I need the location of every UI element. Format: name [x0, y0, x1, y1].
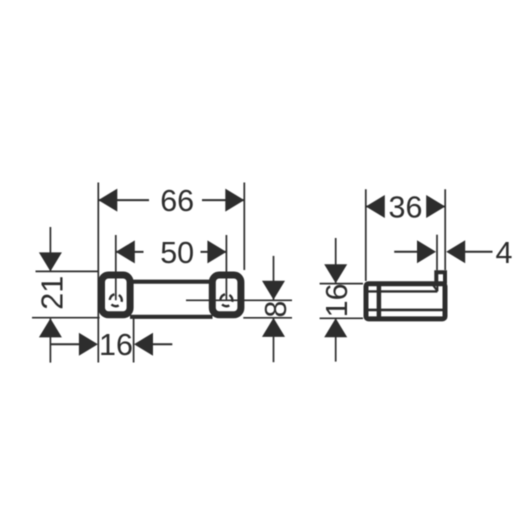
hole axis horizontal centerline [186, 299, 292, 301]
dim 36 extension line right [444, 189, 446, 270]
dim 21 top leader [49, 227, 51, 271]
right screw hole (dashed circle) [218, 292, 234, 308]
dim 8 bottom extension line [243, 317, 292, 319]
dim 66 extension line left [97, 183, 99, 363]
svg-text:66: 66 [160, 184, 194, 218]
dim 16 left extension line [133, 319, 135, 363]
dim 21 top extension line [36, 270, 99, 272]
dim 16 left arrow [79, 333, 98, 356]
dim 8 top leader [273, 256, 275, 300]
dim 16 side top extension line [320, 283, 363, 285]
dim 36 line [366, 206, 445, 208]
dim 50 line [116, 251, 227, 253]
svg-text:50: 50 [160, 236, 194, 270]
svg-text:16: 16 [99, 328, 133, 362]
dim 16 side bottom extension line [320, 317, 363, 319]
dim 66 arrow left [98, 189, 117, 212]
dim 4 right leader [465, 251, 493, 253]
dim 16 side top arrow [324, 264, 347, 283]
dim 36 arrow left [366, 195, 385, 218]
dim 21 top arrow [39, 252, 62, 271]
dim 4 extension line left [436, 235, 438, 271]
dim 21 bottom arrow [39, 318, 62, 337]
dim 66 line [98, 199, 244, 201]
dim 66 arrow right [225, 189, 244, 212]
dim 66 extension line right [243, 183, 245, 271]
right plate (front view, rounded square) [212, 275, 241, 315]
left plate (front view, rounded square) [102, 275, 131, 315]
rail top edge [130, 280, 213, 284]
dim 36 extension line left [365, 189, 367, 281]
dim 50 arrow left [116, 240, 135, 263]
svg-text:16: 16 [320, 283, 354, 317]
side view inner top line [366, 290, 437, 292]
dim 4 left arrow [417, 240, 436, 263]
side view lip inner wall line [436, 284, 438, 291]
svg-text:4: 4 [496, 236, 513, 270]
svg-text:8: 8 [259, 301, 293, 318]
dim 8 top arrow [262, 281, 285, 300]
side view chamfer diagonal [432, 284, 437, 290]
dim 16 left leader [50, 343, 79, 345]
dim 50 arrow right [207, 240, 226, 263]
right hole axis vertical line (ext of dim 50) [225, 235, 227, 301]
dim 8 bottom arrow [262, 318, 285, 337]
dim 4 right arrow [446, 240, 465, 263]
dim 21 bottom extension line [32, 317, 100, 319]
side view wall plate inner vertical line [377, 284, 382, 319]
svg-text:36: 36 [389, 190, 423, 224]
dim 16 right arrow [134, 333, 153, 356]
side view body outline [366, 284, 445, 319]
left screw hole (dashed circle) [108, 292, 124, 308]
dim 36 arrow right [426, 195, 445, 218]
dim 16 side bottom leader [335, 319, 337, 362]
dim 4 left leader [394, 251, 418, 253]
dim 16 side bottom arrow [324, 318, 347, 337]
svg-text:21: 21 [36, 276, 70, 310]
side view hook lip [436, 272, 445, 283]
rail bottom edge [130, 315, 213, 319]
dim 21 bottom leader [49, 319, 51, 363]
dim 16 right leader [153, 343, 172, 345]
dim 8 bottom leader [273, 318, 275, 362]
left hole axis vertical line (ext of dim 50) [115, 235, 117, 300]
dim 16 side top leader [335, 238, 337, 283]
side view inner bottom line [366, 309, 445, 312]
